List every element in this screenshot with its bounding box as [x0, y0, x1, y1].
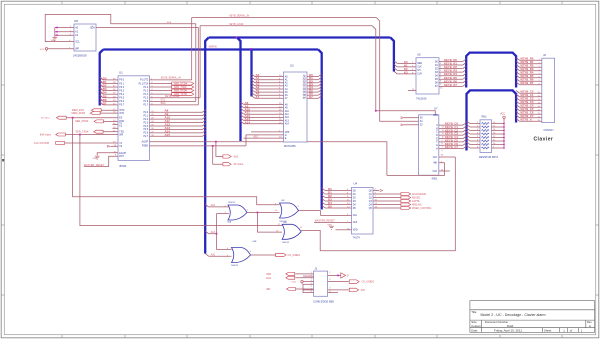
pin stub X2 — [110, 145, 118, 147]
wire U5 pin 11 stub — [408, 90, 416, 92]
flag /WR — [286, 272, 295, 275]
svg-text:A10: A10 — [285, 110, 290, 113]
wire J1 to CS_VIDEO flag — [328, 281, 349, 283]
wire J1 pin /RD — [296, 288, 314, 290]
svg-text:G: G — [436, 145, 438, 147]
svg-text:G: G — [285, 135, 287, 137]
svg-text:SH: SH — [417, 70, 421, 72]
svg-text:AIGU/GRAVE: AIGU/GRAVE — [412, 193, 427, 196]
svg-text:U6B: U6B — [253, 241, 258, 243]
wire U8 WP to VCC — [48, 48, 74, 50]
junction at buffer — [337, 275, 339, 277]
flag AS video — [223, 163, 231, 166]
svg-text:SER_RXD#: SER_RXD# — [75, 120, 89, 123]
bus ADDR vertical at MCU left — [100, 50, 104, 106]
wires U2 A8-A14 from bus — [241, 102, 244, 105]
flag CS_VIDEO gate — [276, 253, 286, 256]
svg-text:P1.4: P1.4 — [143, 94, 148, 96]
svg-text:P2.3: P2.3 — [143, 122, 148, 124]
wires RN1 right to VCC rail — [492, 123, 505, 125]
svg-text:ARELAIS: ARELAIS — [412, 203, 422, 206]
svg-text:CAPTE: CAPTE — [412, 200, 420, 203]
power VCC at J1 — [301, 280, 303, 284]
svg-text:of: of — [570, 329, 573, 333]
junction PSEN — [212, 145, 214, 147]
svg-text:Sheet: Sheet — [544, 329, 552, 333]
svg-text:74HC32: 74HC32 — [231, 265, 239, 267]
power VCC at U8 — [45, 48, 47, 52]
svg-text:CLK: CLK — [417, 67, 422, 69]
svg-text:VDD: VDD — [353, 230, 358, 232]
svg-text:4051: 4051 — [432, 177, 438, 181]
svg-text:VSS: VSS — [93, 158, 98, 160]
wire U6C output — [299, 210, 321, 212]
svg-text:A14: A14 — [285, 123, 290, 126]
wire A13 vertical — [216, 214, 218, 250]
junction U6A out — [257, 212, 259, 214]
svg-text:P0.6: P0.6 — [119, 101, 124, 103]
wire P1.7 SDA — [150, 104, 199, 106]
svg-text:KEYB_SERIAL_IN: KEYB_SERIAL_IN — [161, 77, 181, 80]
svg-text:A5 video: A5 video — [234, 163, 244, 166]
bus keyboard loop 2 — [467, 90, 517, 150]
svg-text:CONN17: CONN17 — [544, 129, 555, 132]
wire J1 pin 2 stub — [303, 275, 314, 277]
svg-text:EA/VP: EA/VP — [119, 152, 126, 155]
connector J2 keyboard — [542, 58, 555, 122]
svg-text:ABM_RXD#: ABM_RXD# — [174, 90, 188, 93]
svg-text:A15: A15 — [211, 253, 216, 256]
flag ALE — [223, 155, 231, 158]
svg-text:CLK: CLK — [353, 215, 358, 217]
svg-text:CLK 6/3 MHZ: CLK 6/3 MHZ — [34, 142, 50, 145]
svg-text:SDA: SDA — [161, 102, 166, 105]
pin stub T0 — [112, 124, 118, 126]
svg-text:8032: 8032 — [120, 164, 127, 168]
eprom U2 M27C256 — [284, 72, 308, 142]
svg-text:VCC: VCC — [432, 171, 437, 173]
flag CS_VIDEO at J1 — [349, 280, 359, 283]
flag MEM_R/W# — [90, 112, 100, 115]
svg-text:A14: A14 — [245, 120, 251, 124]
flag SER_RXD# — [94, 120, 103, 123]
bus horizontal y=37.5 — [209, 36, 391, 38]
wires U5 inputs from bus x=394 — [394, 61, 397, 64]
wire J1 pin stub 5 — [303, 283, 314, 285]
wires U1 P0 to address bus — [103, 79, 118, 81]
svg-text:CLR: CLR — [353, 222, 358, 224]
junction on D5 video net — [72, 117, 74, 119]
svg-text:A14: A14 — [211, 204, 216, 207]
wire J1 pin bottom right stub — [328, 292, 338, 294]
svg-text:P2.0: P2.0 — [143, 112, 148, 114]
svg-text:KEYB_X: KEYB_X — [521, 118, 532, 122]
svg-text:VPP: VPP — [285, 132, 290, 134]
svg-text:J1: J1 — [314, 266, 317, 270]
svg-text:CS_VIDEO: CS_VIDEO — [362, 281, 375, 284]
wire U6A out to U6C pin10 — [257, 212, 279, 214]
svg-text:P2.2: P2.2 — [143, 119, 148, 121]
flag ABC/BC — [373, 197, 401, 199]
mux U7 4051 — [419, 115, 439, 175]
wire 8/W video down to gate U6D — [80, 135, 282, 226]
svg-text:D5: D5 — [328, 205, 332, 209]
svg-text:Model 2 - UC - Decodage - Clav: Model 2 - UC - Decodage - Clavier alarm — [480, 313, 545, 317]
wire ALE to flag — [216, 142, 223, 157]
svg-text:SER_TXD#: SER_TXD# — [76, 131, 90, 134]
wire PSEN to flag — [213, 146, 223, 164]
svg-text:VCC: VCC — [40, 49, 45, 51]
svg-text:SER: SER — [417, 63, 422, 65]
pin stub T1 — [112, 127, 118, 129]
svg-text:P2.7: P2.7 — [143, 136, 148, 138]
svg-text:VCC: VCC — [292, 282, 297, 284]
svg-text:Friday, April 15, 2011: Friday, April 15, 2011 — [494, 329, 522, 333]
svg-text:D: D — [347, 275, 349, 278]
wire P1.5 KEYB_LOAD — [150, 97, 201, 99]
svg-text:RESISTOR DIP-8: RESISTOR DIP-8 — [479, 156, 499, 159]
svg-text:P0.2: P0.2 — [119, 87, 124, 89]
svg-text:VCC: VCC — [500, 113, 505, 115]
svg-text:P0.1: P0.1 — [119, 83, 124, 85]
wire U2 VPP — [251, 131, 284, 133]
wire VCC rail vertical — [503, 120, 505, 149]
svg-text:RN1: RN1 — [482, 115, 488, 119]
svg-text:A: A — [589, 324, 591, 328]
svg-text:KEYB_SERIAL_IN: KEYB_SERIAL_IN — [229, 14, 249, 17]
svg-text:AD7: AD7 — [101, 101, 107, 105]
wire U8 A0 A1 A2 to VSS — [55, 27, 74, 29]
svg-text:Custom: Custom — [471, 324, 481, 328]
wires U2 O0-O7 to data bus — [307, 76, 318, 78]
svg-text:MASTER_RESET: MASTER_RESET — [84, 164, 105, 167]
wire U6B output to CS_VIDEO flag — [251, 254, 276, 256]
svg-text:VDD: VDD — [433, 115, 438, 117]
svg-text:74174: 74174 — [353, 235, 361, 239]
svg-text:74HC32: 74HC32 — [282, 242, 290, 244]
resistor network RN1 — [480, 120, 492, 153]
junction KEYB_LOAD — [375, 110, 377, 112]
wires U4 outputs to flags — [373, 190, 379, 192]
wire U8 SDA loop — [96, 27, 198, 29]
wires RN1 left to keyboard bus loop2 — [467, 121, 470, 124]
wires U5 outputs to keyboard bus loop1 — [439, 61, 463, 63]
wire A14 to U6A pin2 — [209, 206, 229, 208]
wires J2 pins 10-17 from loop2 — [516, 91, 519, 94]
svg-text:A13: A13 — [285, 119, 290, 122]
svg-text:U6C: U6C — [281, 200, 286, 202]
wire A13 to U6B pin1 — [217, 249, 232, 251]
flag D5 video — [56, 116, 66, 119]
svg-text:Title: Title — [471, 310, 477, 314]
svg-text:P1.1/T2X: P1.1/T2X — [139, 83, 149, 85]
svg-text:8/W video: 8/W video — [40, 133, 52, 136]
svg-text:A12: A12 — [285, 116, 290, 119]
wire P1.6 SCL — [150, 100, 196, 102]
svg-text:MEM_R/W#: MEM_R/W# — [72, 112, 86, 115]
svg-text:P1.0/T2: P1.0/T2 — [140, 80, 149, 82]
svg-text:A15: A15 — [165, 133, 171, 137]
wire EA to VSS — [97, 153, 118, 155]
svg-text:P2.5: P2.5 — [143, 129, 148, 131]
svg-text:P2.1: P2.1 — [143, 115, 148, 117]
junction bus y37.5 — [236, 37, 238, 39]
flags ABM serial — [150, 82, 172, 84]
svg-text:ABM_TXD#: ABM_TXD# — [174, 86, 187, 89]
svg-text:P0.3: P0.3 — [119, 90, 124, 92]
svg-text:ADR HI: ADR HI — [209, 45, 217, 48]
svg-text:KEYB_LOAD: KEYB_LOAD — [165, 95, 179, 98]
svg-text:A15: A15 — [254, 136, 259, 139]
svg-text:ALE: ALE — [234, 155, 239, 158]
latch U4 74174 — [352, 188, 374, 235]
wire D5 video down to gate U6C — [73, 118, 280, 205]
svg-text:WR: WR — [119, 134, 123, 136]
wire U7 INH from ALE — [387, 163, 445, 176]
wire U4 CLK from gate U6C — [321, 211, 352, 216]
svg-text:CLR: CLR — [417, 74, 422, 76]
wire U4 CLR MASTER_RESET — [314, 221, 352, 223]
svg-text:KEYB_R7: KEYB_R7 — [444, 83, 457, 87]
svg-text:Draft: Draft — [507, 324, 513, 328]
svg-text:U5: U5 — [417, 53, 421, 57]
svg-text:KEYB_R7: KEYB_R7 — [521, 81, 534, 85]
svg-text:VIDEO_CONTROL: VIDEO_CONTROL — [412, 208, 432, 210]
or-gate U6A 74HC32 — [228, 205, 247, 220]
wire PSEN to U2 G — [246, 135, 284, 146]
svg-text:P2.6: P2.6 — [143, 133, 148, 135]
or-gate U6B 74HC32 — [232, 248, 251, 263]
flag CLK 6/3 MHZ — [56, 142, 65, 145]
svg-text:INT1: INT1 — [119, 113, 125, 115]
wire KEYB_SERIAL_IN vertical right — [376, 18, 418, 122]
wire U6A out to U6D pin13 — [257, 213, 282, 233]
svg-text:A/D: A/D — [361, 289, 365, 292]
flag /G2 — [286, 276, 295, 279]
svg-text:CONN EDGE KBD: CONN EDGE KBD — [313, 300, 334, 303]
svg-text:INT0: INT0 — [119, 110, 125, 112]
svg-text:M27C256: M27C256 — [284, 144, 296, 148]
svg-text:74LS166: 74LS166 — [416, 97, 427, 101]
mcu U1 8032 — [118, 76, 150, 161]
svg-text:MASTER_RESET: MASTER_RESET — [315, 220, 336, 223]
junction on 8/W video net — [79, 134, 81, 136]
svg-text:P0.4: P0.4 — [119, 94, 124, 96]
svg-text:SDA: SDA — [167, 21, 172, 24]
svg-text:J2: J2 — [543, 53, 546, 57]
bus vertical x=240.5 to U2 A8-A14 — [237, 38, 241, 142]
wire A13 net — [205, 231, 208, 234]
flag SER_TXD# — [94, 130, 103, 133]
flag VIDEO_CONTROL — [373, 207, 401, 209]
wire U2 E — [244, 137, 284, 139]
svg-text:24C08/SO8: 24C08/SO8 — [73, 54, 87, 58]
wire J1 pin /WR — [295, 273, 313, 275]
svg-text:A13: A13 — [211, 231, 216, 234]
junction ALE — [215, 141, 217, 143]
wire net KEYB_LOAD top — [200, 25, 372, 27]
wire J1 to AD2 flag — [328, 289, 349, 291]
flag MEM_ETO# — [91, 109, 101, 112]
wire ALE — [150, 142, 387, 176]
wire P1.0 KEYB_SERIAL_IN — [150, 79, 192, 81]
bus vertical x=205 to gates — [205, 38, 209, 254]
svg-text:ABC/BC: ABC/BC — [412, 196, 421, 199]
svg-text:P1.2: P1.2 — [143, 87, 148, 89]
power VCC at RN1 — [503, 116, 505, 120]
wire A15 to U6B pin2 — [205, 253, 208, 256]
svg-text:U8: U8 — [74, 19, 78, 23]
svg-text:RST: RST — [119, 156, 124, 158]
wire J1 right pin to buffer — [328, 274, 341, 276]
wire RST MASTER_RESET — [84, 156, 118, 166]
wire U4 VDD stub — [336, 229, 352, 231]
bus keyboard loop 1 — [466, 53, 516, 88]
wire U6D output — [301, 229, 308, 231]
svg-text:Clavier: Clavier — [534, 137, 554, 143]
svg-text:P1.7: P1.7 — [143, 105, 148, 107]
svg-text:P0.5: P0.5 — [119, 98, 124, 100]
ground VSS at U8 — [52, 37, 57, 40]
bus vertical x=394 to U5 — [390, 38, 394, 72]
svg-text:P1.5: P1.5 — [143, 98, 148, 100]
svg-text:PSEN: PSEN — [142, 146, 149, 148]
bus ADDR horizontal y=49.5 — [103, 48, 318, 50]
flag 8/W video — [56, 133, 66, 136]
wire U6A output — [247, 212, 257, 214]
shift register U5 74LS166 — [416, 58, 439, 94]
eeprom U8 24C08 — [74, 24, 96, 51]
svg-text:D7: D7 — [309, 95, 313, 99]
junction bus y49.5 — [250, 48, 252, 50]
wire U6D output to U7 CLK — [308, 157, 456, 251]
svg-text:U6D: U6D — [283, 222, 288, 224]
svg-text:U2: U2 — [290, 64, 294, 68]
svg-text:/RD: /RD — [266, 288, 271, 291]
junction A13 — [216, 233, 218, 235]
svg-text:TXD: TXD — [119, 132, 124, 134]
wire KEYB_LOAD vertical right — [372, 26, 376, 111]
svg-text:Document Number: Document Number — [485, 320, 509, 324]
svg-text:U1: U1 — [119, 71, 123, 75]
svg-text:CLK: CLK — [433, 157, 438, 159]
wire J1 pin /G2 — [295, 277, 313, 279]
ground VSS at U1 EA — [95, 156, 100, 159]
svg-text:KEYB_C7: KEYB_C7 — [445, 145, 458, 149]
wire KEYB_LOAD to U7 — [376, 111, 439, 116]
wires J2 pins 1-8 from loop1 — [516, 58, 519, 61]
flag /RD — [287, 288, 296, 291]
wires U4 D0-D5 from data bus — [322, 188, 325, 191]
svg-text:74HC32: 74HC32 — [228, 202, 236, 204]
wire J1 VCC — [304, 281, 314, 283]
wire U8 SCL loop to top — [45, 14, 196, 41]
ground VSS at U4 — [329, 226, 334, 229]
svg-text:CS_VIDEO: CS_VIDEO — [288, 254, 301, 257]
flag AD2 — [349, 288, 358, 291]
wire net KEYB_SERIAL_IN top — [192, 17, 377, 19]
svg-text:SCL: SCL — [75, 41, 80, 43]
svg-text:A7: A7 — [256, 95, 260, 99]
svg-text:WP: WP — [75, 49, 79, 51]
wire J1 pin stubs 7 8 — [303, 289, 314, 291]
wires U7 outputs to keyboard bus loop2 — [439, 124, 463, 126]
svg-text:KEYB_LOAD: KEYB_LOAD — [229, 23, 243, 26]
wires U1 P2 to address bus A8-A15 — [150, 111, 203, 113]
svg-text:VSS: VSS — [328, 224, 333, 226]
svg-text:U7: U7 — [434, 107, 438, 111]
svg-text:U6A: U6A — [227, 221, 232, 224]
svg-text:K3: K3 — [404, 70, 408, 74]
svg-text:P1.6: P1.6 — [143, 101, 148, 103]
svg-text:D5 video: D5 video — [41, 118, 50, 120]
svg-text:/WR: /WR — [266, 273, 271, 276]
svg-text:ALE/P: ALE/P — [142, 141, 149, 144]
wire PSEN — [150, 145, 247, 147]
buffer triangle — [341, 273, 346, 278]
or-gate U6C 74HC32 — [280, 203, 299, 218]
svg-text:ABM_DCD#: ABM_DCD# — [174, 82, 188, 85]
svg-text:P0.0: P0.0 — [119, 80, 124, 82]
or-gate U6D 74HC32 — [282, 224, 301, 239]
wire U7 S0 S2 stubs — [404, 117, 419, 119]
wire U7 VCC stub — [439, 170, 450, 172]
svg-text:P2.4: P2.4 — [143, 126, 148, 128]
svg-text:SCL: SCL — [161, 98, 166, 101]
flag CAPTE — [373, 200, 401, 202]
svg-text:Date:: Date: — [471, 329, 478, 333]
junction dots on VCC rail — [503, 123, 504, 124]
flag AIGU/GRAVE — [373, 193, 401, 195]
wire A13 to U6A pin1 — [217, 213, 229, 215]
svg-text:P1.3: P1.3 — [143, 90, 148, 92]
title block — [470, 301, 595, 333]
connector J1 CONN EDGE KBD — [314, 271, 328, 296]
svg-text:INH: INH — [433, 163, 437, 165]
svg-text:AG2: AG2 — [266, 277, 272, 280]
svg-text:P0.7: P0.7 — [119, 105, 124, 107]
wires U2 A0-A7 from bus — [252, 74, 255, 77]
bus vertical x=251.5 to U2 A0-A7 — [250, 49, 252, 97]
bus data vertical to U4 — [318, 50, 322, 210]
wire U7 CLK to U6D net — [439, 156, 456, 158]
svg-text:U4: U4 — [354, 182, 358, 186]
flag ARELAIS — [373, 204, 401, 206]
